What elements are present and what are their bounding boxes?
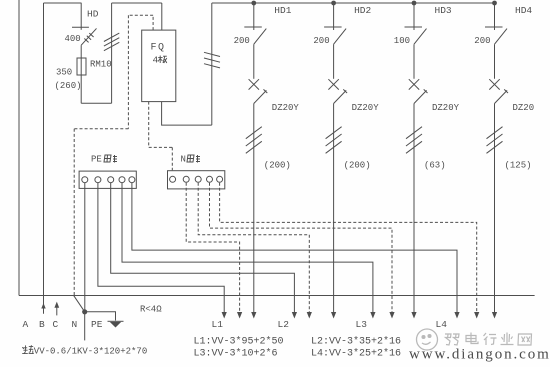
svg-text:R<4Ω: R<4Ω bbox=[140, 305, 162, 315]
wire incoming loop top bbox=[44, 2, 82, 4]
label mu-pai (busbar) CJK for N bbox=[187, 155, 200, 163]
svg-text:N: N bbox=[72, 319, 78, 330]
wire HD switch feed vertical bbox=[80, 3, 82, 27]
N busbar terminal 5 bbox=[217, 176, 223, 182]
node busbar tap HD1 bbox=[251, 1, 256, 6]
svg-text:HD1: HD1 bbox=[274, 5, 291, 16]
arrow PE feeder L3 bbox=[370, 312, 375, 319]
wire through fuse bbox=[80, 58, 82, 75]
wire N dashed top horizontal bbox=[128, 14, 153, 16]
svg-text:(63): (63) bbox=[424, 161, 446, 171]
wire PE feeder L3 bbox=[122, 183, 373, 313]
wire bottom elbow bbox=[81, 102, 111, 104]
circuit breaker DZ20Y for HD2 bbox=[328, 79, 347, 103]
svg-text:www.diangon.com: www.diangon.com bbox=[409, 347, 550, 363]
fuse RM10 350(260) bbox=[77, 58, 86, 75]
arrow incoming phase C bbox=[54, 302, 59, 308]
three-phase marker on riser bbox=[104, 33, 119, 51]
N busbar terminal 4 bbox=[207, 176, 213, 182]
svg-text:350: 350 bbox=[56, 68, 72, 78]
wire N dashed left vertical bbox=[127, 15, 129, 129]
svg-text:DZ20Y: DZ20Y bbox=[432, 103, 460, 113]
N busbar terminal 2 bbox=[183, 176, 189, 182]
svg-text:4: 4 bbox=[153, 55, 159, 66]
three-phase marker HD3 bbox=[406, 127, 422, 154]
svg-text:L4: L4 bbox=[436, 319, 448, 330]
N busbar terminal strip bbox=[168, 171, 225, 189]
svg-text:PE: PE bbox=[91, 319, 103, 330]
svg-text:(200): (200) bbox=[264, 161, 291, 171]
svg-text:200: 200 bbox=[474, 36, 490, 46]
svg-text:C: C bbox=[53, 319, 59, 330]
arrow feeder phase HD4 bbox=[492, 312, 497, 319]
svg-text:100: 100 bbox=[394, 36, 410, 46]
svg-text:L2: L2 bbox=[278, 319, 290, 330]
wire FQ phase output to busbar bbox=[162, 102, 212, 126]
arrow feeder phase HD2 bbox=[331, 312, 336, 319]
svg-text:200: 200 bbox=[234, 36, 250, 46]
svg-text:(260): (260) bbox=[55, 81, 82, 91]
watermark CJK ye (industry) bbox=[501, 333, 514, 345]
wire incoming C arrow shaft bbox=[56, 307, 58, 315]
svg-text:(200): (200) bbox=[344, 161, 371, 171]
svg-text:200: 200 bbox=[313, 36, 329, 46]
wire PE feeder L2 bbox=[111, 183, 295, 313]
wire PE terminal 1 to ground node bbox=[84, 183, 86, 312]
watermark CJK dian (electric) bbox=[466, 333, 478, 344]
knife switch HD2 200A bbox=[324, 27, 346, 44]
knife switch HD 400A bbox=[72, 27, 97, 45]
wire incoming B stub bbox=[43, 296, 45, 314]
arrow PE feeder L2 bbox=[292, 312, 297, 319]
svg-text:HD4: HD4 bbox=[515, 5, 532, 16]
svg-text:PE: PE bbox=[91, 155, 102, 165]
svg-text:VV-0.6/1KV-3*120+2*70: VV-0.6/1KV-3*120+2*70 bbox=[34, 347, 147, 357]
svg-text:400: 400 bbox=[65, 34, 81, 44]
PE busbar terminal 5 bbox=[129, 177, 135, 183]
svg-text:DZ20Y: DZ20Y bbox=[352, 103, 380, 113]
wire HD4 breaker down to feeder arrow bbox=[494, 104, 496, 313]
wire top link to FQ bbox=[112, 2, 162, 4]
wire HD3 breaker down to feeder arrow bbox=[413, 104, 415, 313]
node busbar tap HD4 bbox=[492, 1, 497, 6]
wire PE riser below node bbox=[84, 312, 86, 341]
three-phase marker HD4 bbox=[487, 127, 503, 154]
wire HD1 switch to breaker bbox=[253, 44, 255, 79]
svg-text:DZ20: DZ20 bbox=[513, 103, 535, 113]
wire N feeder L3 dashed bbox=[210, 183, 393, 313]
PE busbar terminal strip bbox=[79, 171, 136, 188]
svg-text:A: A bbox=[23, 319, 29, 330]
wire HD3 switch to breaker bbox=[413, 44, 415, 79]
svg-text:B: B bbox=[39, 319, 45, 330]
wire N incoming dashed vertical bbox=[73, 129, 75, 295]
arrow feeder phase HD3 bbox=[411, 312, 416, 319]
wire HD2 breaker down to feeder arrow bbox=[333, 104, 335, 313]
wire N feeder L2 dashed bbox=[198, 183, 309, 313]
ground electrode symbol bbox=[108, 321, 124, 327]
svg-text:HD2: HD2 bbox=[354, 5, 371, 16]
node PEN junction bbox=[82, 309, 87, 314]
arrow PE feeder L4 bbox=[454, 312, 459, 319]
knife switch HD4 200A bbox=[485, 27, 507, 44]
node busbar tap HD2 bbox=[331, 1, 336, 6]
circuit breaker DZ20 for HD4 bbox=[489, 79, 508, 103]
svg-text:N: N bbox=[181, 155, 186, 165]
svg-text:HD: HD bbox=[87, 9, 99, 20]
svg-text:HD3: HD3 bbox=[435, 5, 452, 16]
svg-text:RM10: RM10 bbox=[90, 60, 112, 70]
watermark CJK ruo (weak) bbox=[445, 334, 459, 345]
label jin-xian (incoming cable) CJK bbox=[22, 345, 34, 353]
N busbar terminal 3 bbox=[195, 176, 201, 182]
wire HD2 switch to breaker bbox=[333, 44, 335, 79]
arrow PE feeder L1 bbox=[222, 312, 227, 319]
svg-text:L1:VV-3*95+2*50: L1:VV-3*95+2*50 bbox=[194, 336, 284, 348]
knife switch HD1 200A bbox=[244, 27, 266, 44]
wire N dashed to N busbar bbox=[171, 147, 173, 170]
three-phase marker HD1 bbox=[246, 127, 262, 154]
wire ground branch bbox=[85, 312, 116, 321]
watermark CJK hang (profession) bbox=[484, 333, 497, 345]
PE busbar terminal 1 bbox=[82, 177, 88, 183]
watermark CJK wang (net) bbox=[518, 334, 532, 345]
circuit breaker DZ20Y for HD1 bbox=[249, 79, 268, 103]
svg-text:L1: L1 bbox=[212, 319, 224, 330]
circuit breaker DZ20Y for HD3 bbox=[409, 79, 428, 103]
label mu-pai (busbar) CJK for PE bbox=[104, 155, 117, 163]
wire earthing conductor horizontal R<4 bbox=[19, 295, 535, 297]
arrow feeder phase HD1 bbox=[251, 312, 256, 319]
wire N dashed FQ top stub bbox=[152, 15, 154, 30]
svg-text:L2:VV-3*35+2*16: L2:VV-3*35+2*16 bbox=[311, 336, 401, 348]
wire FQ input vertical bbox=[161, 3, 163, 30]
wire N dashed FQ bottom bbox=[148, 102, 150, 148]
svg-text:FQ: FQ bbox=[151, 43, 166, 54]
wire N dashed elbow bbox=[149, 146, 173, 148]
svg-text:(125): (125) bbox=[505, 161, 532, 171]
arrow incoming phase B bbox=[41, 303, 45, 309]
svg-text:L3: L3 bbox=[356, 319, 368, 330]
wire HD1 drop from bus bbox=[253, 3, 255, 27]
label ji (pole) CJK bbox=[158, 56, 167, 64]
wire switch to fuse bbox=[80, 45, 82, 58]
wire incoming riser vertical (phase B) bbox=[43, 3, 45, 296]
wire fuse down bbox=[80, 75, 82, 103]
wire PE feeder L1 bbox=[98, 183, 224, 313]
wire HD2 drop from bus bbox=[333, 3, 335, 27]
wire busbar left vertical bbox=[211, 3, 213, 125]
node busbar tap HD3 bbox=[412, 1, 417, 6]
wire HD1 breaker down to feeder arrow bbox=[253, 104, 255, 313]
wire N to PE bond diagonal bbox=[74, 296, 85, 312]
wire HD4 switch to breaker bbox=[494, 44, 496, 79]
PE busbar terminal 2 bbox=[95, 177, 101, 183]
wire N feeder L1 dashed bbox=[186, 183, 239, 313]
wire enclosure left vertical bbox=[18, 0, 20, 296]
svg-text:DZ20Y: DZ20Y bbox=[272, 103, 300, 113]
N busbar terminal 1 bbox=[170, 176, 176, 182]
wire N feeder L4 dashed bbox=[220, 183, 477, 313]
three-phase marker on busbar feed bbox=[204, 52, 220, 68]
svg-text:L4:VV-3*25+2*16: L4:VV-3*25+2*16 bbox=[311, 348, 401, 360]
arrow N feeder L1 bbox=[237, 312, 242, 319]
svg-text:L3:VV-3*10+2*6: L3:VV-3*10+2*6 bbox=[194, 348, 278, 360]
watermark logo circle bbox=[417, 329, 438, 350]
wire N dashed horizontal to incoming bbox=[74, 128, 128, 130]
knife switch HD3 100A bbox=[405, 27, 427, 44]
wire riser to top (3-phase) bbox=[111, 3, 113, 103]
wire HD3 drop from bus bbox=[413, 3, 415, 27]
PE busbar terminal 4 bbox=[119, 177, 125, 183]
arrow N feeder L2 bbox=[307, 312, 312, 319]
PE busbar terminal 3 bbox=[108, 177, 114, 183]
arrow N feeder L3 bbox=[389, 312, 394, 319]
wire PE feeder L4 bbox=[132, 183, 457, 313]
arrow N feeder L4 bbox=[474, 312, 479, 319]
three-phase marker HD2 bbox=[326, 127, 342, 154]
circuit breaker FQ 4-pole bbox=[142, 30, 176, 102]
wire HD4 drop from bus bbox=[494, 3, 496, 27]
wire main busbar horizontal bbox=[212, 2, 495, 4]
